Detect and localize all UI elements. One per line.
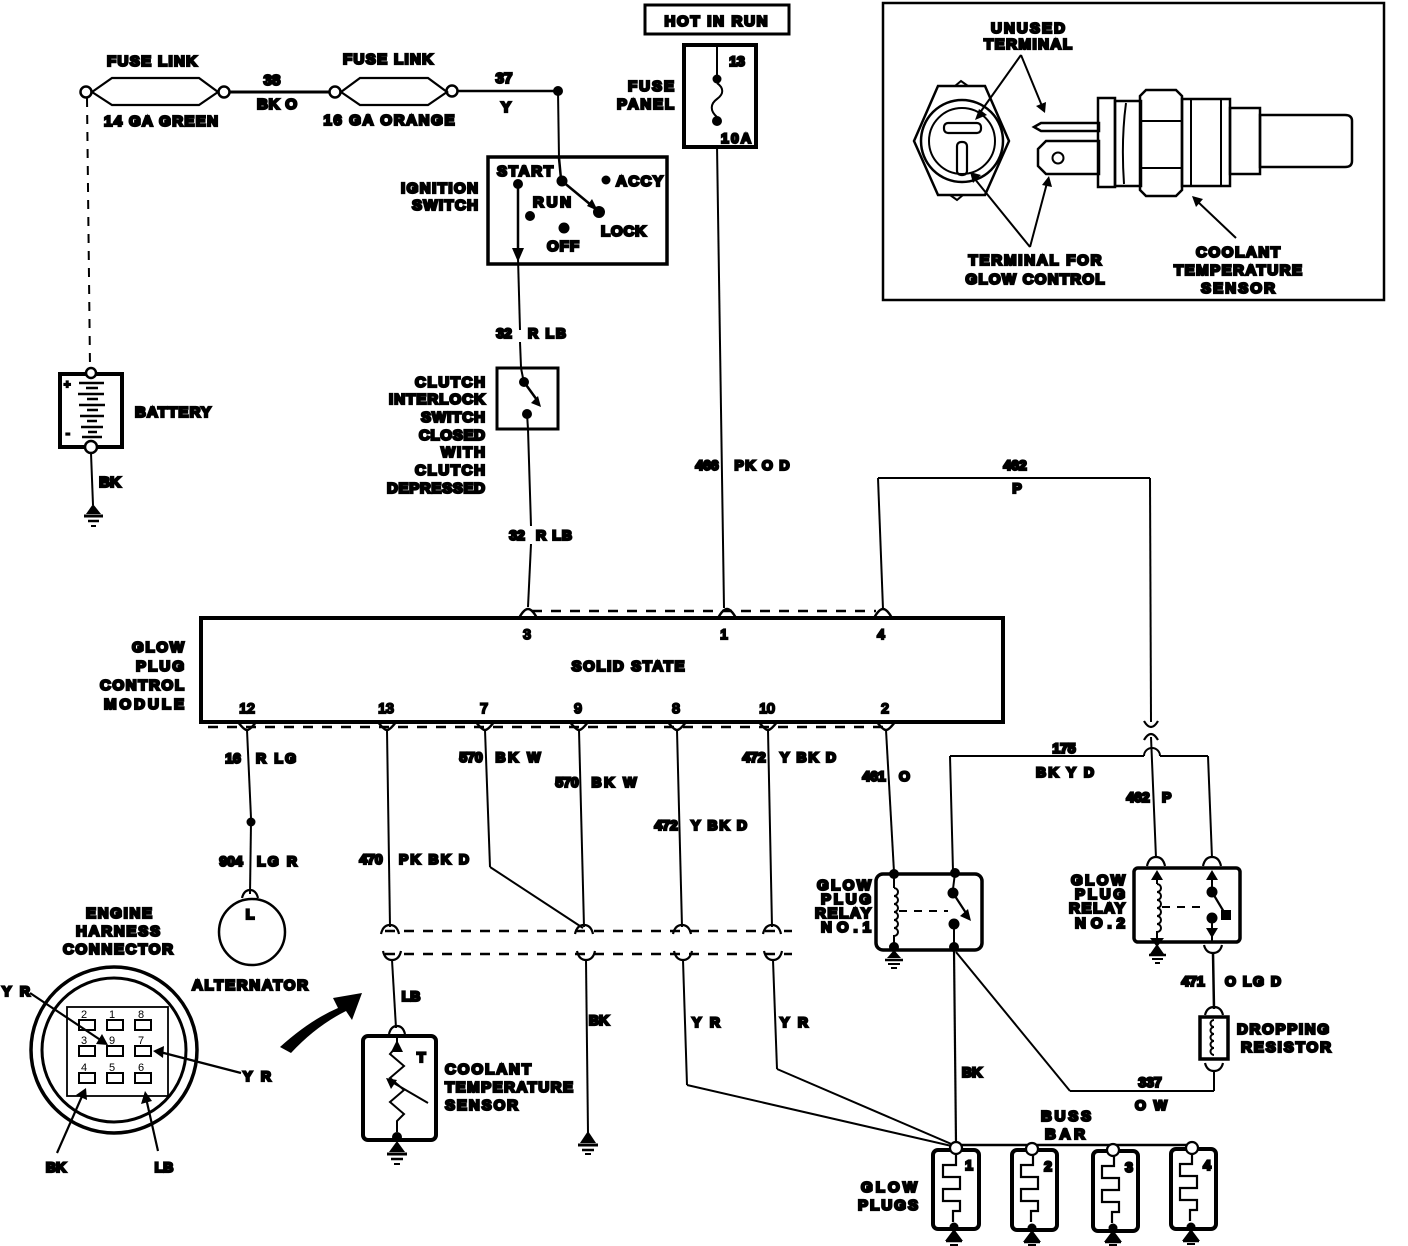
- svg-text:BK O: BK O: [257, 96, 297, 113]
- svg-text:8: 8: [672, 700, 680, 716]
- svg-text:O W: O W: [1135, 1097, 1168, 1113]
- svg-text:CONNECTOR: CONNECTOR: [63, 941, 173, 958]
- svg-text:471: 471: [1181, 973, 1205, 989]
- relay 1 switch: [948, 868, 972, 952]
- svg-text:FUSE: FUSE: [628, 78, 674, 95]
- engine harness connector J1: [31, 905, 197, 1133]
- svg-text:ENGINE: ENGINE: [86, 905, 152, 922]
- svg-text:START: START: [497, 163, 553, 180]
- svg-text:COOLANT: COOLANT: [445, 1061, 531, 1078]
- svg-text:RESISTOR: RESISTOR: [1241, 1039, 1331, 1056]
- svg-text:DEPRESSED: DEPRESSED: [387, 480, 485, 497]
- svg-text:Y BK D: Y BK D: [691, 817, 747, 833]
- label Y R to pin 9: [2, 983, 108, 1045]
- svg-text:L: L: [246, 906, 255, 922]
- svg-text:472: 472: [742, 749, 766, 765]
- svg-text:904: 904: [219, 853, 243, 869]
- svg-text:1: 1: [720, 626, 728, 642]
- thermistor element inside sensor: [386, 1038, 428, 1132]
- svg-text:BK: BK: [962, 1064, 982, 1080]
- svg-text:BK: BK: [46, 1159, 66, 1175]
- ground battery: [84, 504, 103, 526]
- fuse 13 10A inside fuse panel: [712, 47, 751, 146]
- svg-text:4: 4: [877, 626, 885, 642]
- svg-text:TEMPERATURE: TEMPERATURE: [1174, 262, 1302, 279]
- wire 32 R LB upper label: [496, 325, 566, 367]
- wire 472 Y BK D from pin 10: [742, 730, 836, 927]
- wire BK battery to ground: [91, 453, 121, 505]
- svg-text:466: 466: [695, 457, 719, 473]
- buss bar: [956, 1108, 1196, 1145]
- svg-text:37: 37: [496, 70, 513, 87]
- svg-text:BK: BK: [99, 474, 121, 491]
- label COOLANT TEMPERATURE SENSOR: [1174, 196, 1302, 297]
- svg-text:OFF: OFF: [547, 238, 579, 255]
- svg-text:PK BK D: PK BK D: [399, 851, 469, 867]
- svg-text:+: +: [64, 379, 70, 391]
- inline connector on wire 462: [1144, 721, 1158, 858]
- svg-text:SWITCH: SWITCH: [421, 409, 485, 426]
- wire 472 Y BK D from pin 8: [654, 730, 747, 927]
- svg-text:BATTERY: BATTERY: [135, 404, 211, 421]
- battery: [60, 368, 211, 453]
- svg-text:14 GA GREEN: 14 GA GREEN: [104, 113, 218, 130]
- clutch switch contacts: [519, 368, 541, 429]
- ground relay 2: [1149, 944, 1166, 963]
- wire 904 LG R to alternator: [219, 822, 297, 894]
- svg-text:FUSE LINK: FUSE LINK: [343, 51, 433, 68]
- svg-text:P: P: [1162, 789, 1171, 805]
- svg-text:LOCK: LOCK: [601, 223, 646, 240]
- splice node on alternator wire: [247, 818, 256, 827]
- svg-text:O: O: [899, 768, 910, 784]
- coolant sensor side view: [1034, 90, 1352, 196]
- relay 1 coil: [889, 869, 899, 952]
- svg-text:175: 175: [1052, 740, 1076, 756]
- alternator G1: [192, 890, 308, 994]
- svg-text:12: 12: [239, 700, 255, 716]
- pin 10: [759, 700, 777, 730]
- svg-text:SWITCH: SWITCH: [412, 197, 478, 214]
- relay 2 switch: [1206, 870, 1231, 941]
- label Y R to pin 7: [153, 1046, 271, 1084]
- svg-text:Y R: Y R: [780, 1014, 808, 1030]
- svg-text:RUN: RUN: [533, 194, 571, 211]
- wire 570 BK W from pin 9: [555, 730, 637, 927]
- glow plug 1: [933, 1142, 979, 1245]
- svg-text:R LG: R LG: [256, 750, 296, 766]
- svg-text:570: 570: [459, 749, 483, 765]
- wire BK relay 1 to buss bar: [954, 950, 982, 1143]
- ignition switch contacts and lever: [497, 158, 663, 255]
- svg-text:CLUTCH: CLUTCH: [415, 374, 485, 391]
- wire BK to ground: [586, 960, 609, 1133]
- svg-text:HOT IN RUN: HOT IN RUN: [665, 13, 768, 30]
- fuse panel box: [617, 45, 756, 147]
- svg-text:Y R: Y R: [2, 983, 30, 999]
- connector caps upper row: [381, 925, 781, 934]
- svg-text:INTERLOCK: INTERLOCK: [389, 391, 485, 408]
- svg-text:BAR: BAR: [1045, 1126, 1085, 1143]
- label BK to pin 4: [46, 1088, 87, 1175]
- svg-text:GLOW: GLOW: [132, 639, 185, 656]
- svg-text:1: 1: [965, 1157, 973, 1173]
- svg-text:GLOW: GLOW: [861, 1179, 918, 1196]
- label UNUSED TERMINAL: [975, 20, 1072, 120]
- relay 2 coil: [1150, 870, 1164, 947]
- svg-text:BK: BK: [589, 1012, 609, 1028]
- wire 461 O from pin 2 to relay 1: [862, 730, 910, 872]
- svg-text:470: 470: [359, 851, 383, 867]
- svg-text:337: 337: [1138, 1074, 1162, 1090]
- svg-text:10A: 10A: [721, 130, 751, 146]
- connector caps lower row: [383, 951, 782, 960]
- svg-text:570: 570: [555, 774, 579, 790]
- svg-text:2: 2: [1044, 1158, 1052, 1174]
- pin 3: [519, 609, 537, 642]
- wire Y R from pin 8 connector to buss bar: [683, 960, 956, 1147]
- fuse link FL1 14 GA GREEN: [81, 53, 230, 130]
- svg-text:IGNITION: IGNITION: [401, 180, 478, 197]
- svg-text:TERMINAL: TERMINAL: [984, 36, 1072, 53]
- relay 2 pin connectors: [1147, 857, 1221, 866]
- svg-text:NO.2: NO.2: [1075, 915, 1125, 932]
- svg-text:13: 13: [378, 700, 394, 716]
- wire 16 R LG from pin 12: [225, 730, 296, 818]
- label TERMINAL FOR GLOW CONTROL: [966, 172, 1105, 288]
- wire from junction down to ignition switch: [558, 91, 559, 158]
- svg-text:Y: Y: [501, 99, 511, 116]
- glow plug control module U1: [100, 618, 1003, 722]
- pin 1: [718, 609, 736, 642]
- relay 1 dashed link: [899, 910, 948, 912]
- pin 4: [874, 609, 892, 642]
- junction node at fuse link output: [553, 86, 563, 96]
- svg-text:LG R: LG R: [257, 853, 297, 869]
- glow plug relay no.2 K2: [1069, 868, 1240, 942]
- svg-text:Y R: Y R: [692, 1014, 720, 1030]
- svg-text:ALTERNATOR: ALTERNATOR: [192, 977, 308, 994]
- svg-text:CONTROL: CONTROL: [100, 677, 184, 694]
- ground BK wire: [578, 1131, 598, 1154]
- wire 337 O W relay 1 to dropping resistor: [956, 952, 1214, 1113]
- svg-text:472: 472: [654, 817, 678, 833]
- svg-text:10: 10: [759, 700, 775, 716]
- coolant sensor front view: [914, 81, 1009, 200]
- svg-text:DROPPING: DROPPING: [1237, 1021, 1329, 1038]
- svg-text:R LB: R LB: [528, 325, 566, 341]
- svg-text:GLOW CONTROL: GLOW CONTROL: [966, 271, 1105, 288]
- inset frame: [883, 3, 1384, 300]
- wire 466 PK O D from fuse panel to module pin 1: [695, 145, 789, 608]
- wire 462 P label near relay 2: [1126, 789, 1171, 805]
- svg-text:SOLID STATE: SOLID STATE: [572, 658, 685, 675]
- pin 9: [570, 700, 588, 730]
- svg-text:FUSE LINK: FUSE LINK: [107, 53, 197, 70]
- wire Y R from pin 10 connector to buss bar: [773, 960, 956, 1146]
- curved arrow pointer: [280, 993, 362, 1053]
- ground coolant sensor: [387, 1132, 407, 1164]
- svg-text:PLUGS: PLUGS: [858, 1197, 918, 1214]
- svg-text:7: 7: [480, 700, 488, 716]
- pin 8: [668, 700, 686, 730]
- svg-text:3: 3: [1125, 1159, 1133, 1175]
- svg-text:462: 462: [1003, 457, 1027, 473]
- svg-text:NO.1: NO.1: [821, 919, 871, 936]
- ground relay 1: [885, 950, 903, 968]
- svg-text:9: 9: [574, 700, 582, 716]
- svg-text:TEMPERATURE: TEMPERATURE: [445, 1079, 573, 1096]
- svg-text:P: P: [1012, 480, 1021, 496]
- svg-text:LB: LB: [402, 988, 421, 1004]
- svg-text:PANEL: PANEL: [617, 96, 674, 113]
- label GLOW PLUGS: [858, 1179, 918, 1214]
- svg-text:Y BK D: Y BK D: [780, 749, 836, 765]
- label LB to pin 6: [141, 1091, 173, 1175]
- wire 570 BK W from pin 7: [459, 730, 583, 928]
- wire 175 BK Y D: [950, 740, 1212, 871]
- svg-text:32: 32: [496, 325, 512, 341]
- dropping resistor R1: [1200, 1007, 1331, 1091]
- dashed harness line above module: [532, 610, 876, 613]
- svg-text:CLUTCH: CLUTCH: [415, 462, 485, 479]
- svg-text:16: 16: [225, 750, 241, 766]
- pin 12: [238, 700, 256, 730]
- svg-text:462: 462: [1126, 789, 1150, 805]
- pin 2: [877, 700, 895, 730]
- svg-text:38: 38: [264, 72, 281, 89]
- svg-text:PK O D: PK O D: [735, 457, 790, 473]
- pin 13: [378, 700, 396, 730]
- glow plug relay no.1 K1: [815, 874, 982, 950]
- wire from START contact down with arrow: [512, 184, 524, 330]
- wire 471 O LG D from relay 2: [1181, 945, 1281, 1009]
- lower harness dashed row upper: [385, 930, 792, 933]
- wire 462 P from pin 4: [878, 457, 1151, 722]
- dashed wire from fuse link to battery: [87, 98, 90, 367]
- harness pins grid with pin numbers: [79, 1009, 151, 1083]
- svg-text:R LB: R LB: [536, 527, 572, 543]
- glow plug 3: [1093, 1144, 1138, 1245]
- svg-text:Y R: Y R: [243, 1068, 271, 1084]
- glow plug 2: [1012, 1143, 1057, 1245]
- svg-text:WITH: WITH: [441, 444, 485, 461]
- svg-text:4: 4: [1203, 1157, 1211, 1173]
- ignition switch box: [401, 157, 667, 264]
- wire LB to coolant sensor: [392, 960, 420, 1028]
- svg-text:HARNESS: HARNESS: [76, 923, 160, 940]
- svg-text:O LG D: O LG D: [1225, 973, 1281, 989]
- pin 7: [476, 700, 494, 730]
- wire 32 R LB lower to module pin 3: [509, 429, 572, 607]
- glow plug 4: [1171, 1142, 1216, 1244]
- svg-text:CLOSED: CLOSED: [419, 427, 485, 444]
- wire 470 PK BK D from pin 13: [359, 730, 469, 927]
- fuse link FL2 16 GA ORANGE: [324, 51, 458, 129]
- svg-text:32: 32: [509, 527, 525, 543]
- svg-text:T: T: [417, 1049, 426, 1065]
- svg-text:COOLANT: COOLANT: [1196, 244, 1280, 261]
- relay 2 dashed link: [1162, 906, 1200, 908]
- svg-text:LB: LB: [155, 1159, 174, 1175]
- svg-text:SENSOR: SENSOR: [445, 1097, 518, 1114]
- svg-text:3: 3: [523, 626, 531, 642]
- svg-text:-: -: [66, 428, 70, 440]
- wire 38 BK O: [229, 72, 330, 113]
- node HOT IN RUN: [645, 5, 789, 34]
- svg-text:2: 2: [881, 700, 889, 716]
- svg-text:PLUG: PLUG: [136, 658, 184, 675]
- clutch interlock switch box: [387, 368, 558, 497]
- wire 37 Y: [457, 70, 558, 116]
- svg-text:16 GA ORANGE: 16 GA ORANGE: [324, 112, 455, 129]
- coolant temperature sensor box: [363, 1026, 573, 1140]
- lower harness dashed row lower: [385, 953, 792, 956]
- svg-text:13: 13: [729, 53, 745, 69]
- dashed harness line below module: [208, 726, 892, 729]
- svg-text:461: 461: [862, 768, 886, 784]
